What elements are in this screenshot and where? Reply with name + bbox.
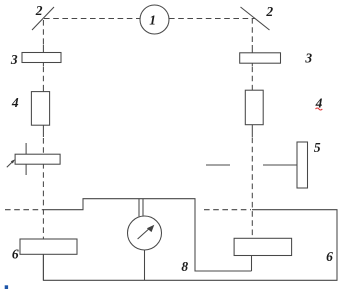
svg-text:4: 4 xyxy=(11,95,19,110)
svg-text:1: 1 xyxy=(149,12,156,27)
svg-text:5: 5 xyxy=(314,140,321,155)
svg-text:8: 8 xyxy=(181,259,188,274)
svg-text:6: 6 xyxy=(12,246,19,261)
svg-text:2: 2 xyxy=(35,3,43,18)
svg-text:6: 6 xyxy=(326,249,333,264)
svg-text:3: 3 xyxy=(10,52,18,67)
svg-text:3: 3 xyxy=(304,51,312,66)
svg-text:2: 2 xyxy=(265,4,273,19)
